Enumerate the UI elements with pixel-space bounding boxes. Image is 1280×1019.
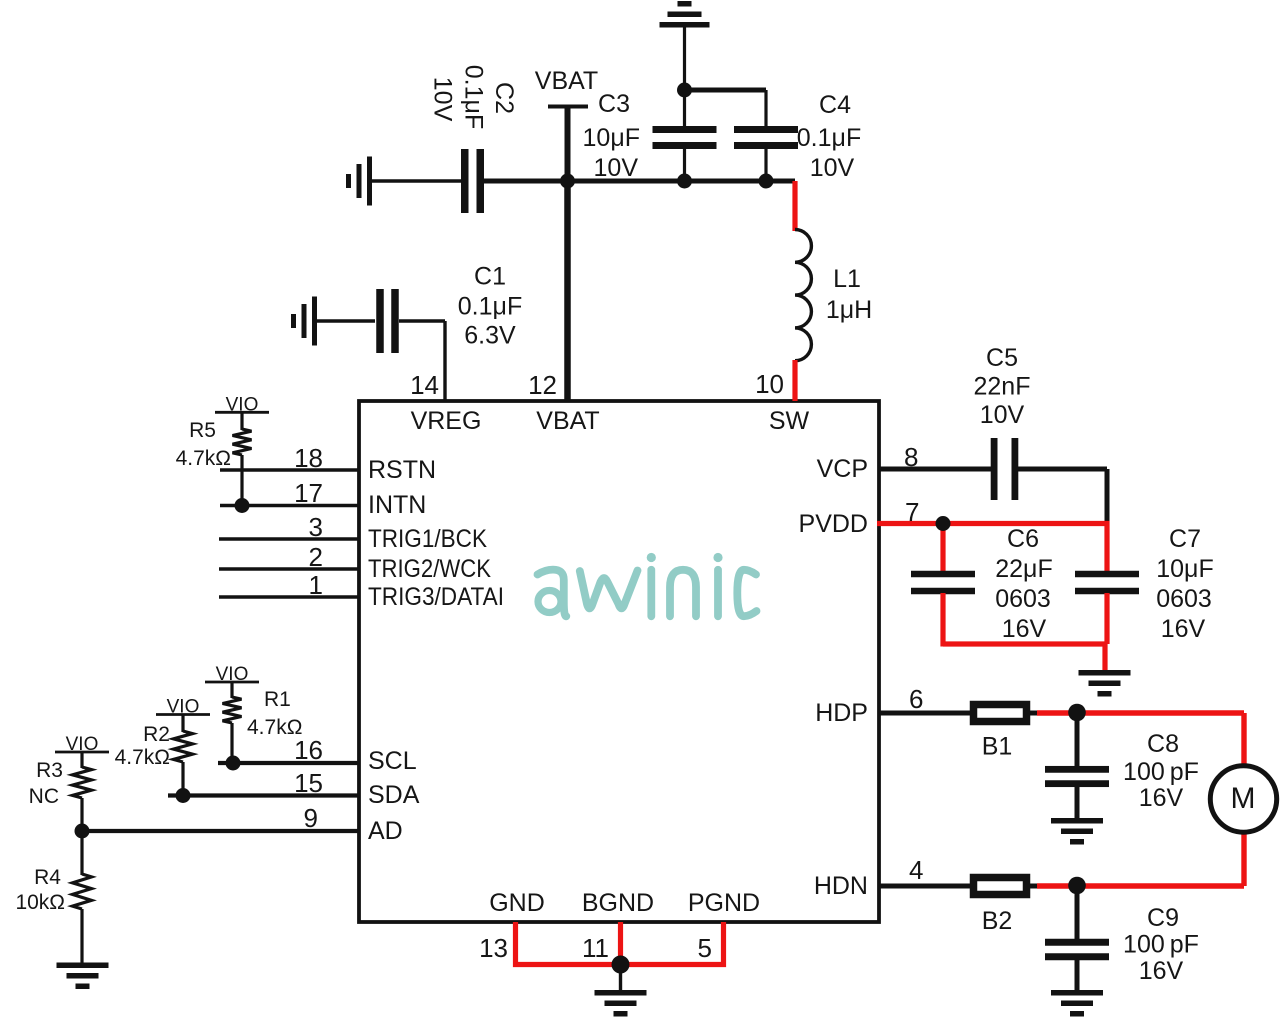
svg-text:0.1μF: 0.1μF [797,124,861,152]
svg-text:TRIG1/BCK: TRIG1/BCK [368,525,487,553]
svg-text:10V: 10V [810,154,855,182]
svg-text:9: 9 [304,803,318,833]
svg-text:VREG: VREG [411,407,482,435]
svg-text:16: 16 [294,735,323,765]
svg-text:VCP: VCP [817,455,868,483]
svg-text:17: 17 [294,478,323,508]
svg-text:10V: 10V [594,154,639,182]
svg-text:5: 5 [698,933,712,963]
svg-text:18: 18 [294,443,323,473]
svg-text:INTN: INTN [368,491,426,519]
svg-text:10: 10 [755,369,784,399]
svg-text:10μF: 10μF [1156,555,1213,583]
svg-text:R1: R1 [264,688,291,711]
svg-text:R2: R2 [143,723,170,746]
svg-text:1: 1 [309,570,323,600]
svg-text:4.7kΩ: 4.7kΩ [115,746,170,769]
svg-text:VBAT: VBAT [536,407,599,435]
svg-text:16V: 16V [1139,784,1184,812]
svg-text:6.3V: 6.3V [464,322,516,350]
svg-text:10V: 10V [980,401,1025,429]
svg-text:11: 11 [582,933,609,963]
svg-text:BGND: BGND [582,889,654,917]
svg-text:SDA: SDA [368,781,420,809]
svg-text:1μH: 1μH [826,296,872,324]
svg-text:C5: C5 [986,344,1018,372]
svg-text:6: 6 [909,684,923,714]
svg-text:PGND: PGND [688,889,760,917]
svg-text:TRIG3/DATAI: TRIG3/DATAI [368,583,504,611]
svg-text:13: 13 [479,933,508,963]
svg-text:R3: R3 [36,759,63,782]
svg-text:2: 2 [309,542,323,572]
svg-text:C6: C6 [1007,525,1039,553]
svg-text:4: 4 [909,855,923,885]
svg-text:C9: C9 [1147,904,1179,932]
svg-text:C4: C4 [819,91,851,119]
svg-text:NC: NC [29,785,59,808]
svg-text:10kΩ: 10kΩ [15,891,65,914]
svg-text:C7: C7 [1169,525,1201,553]
svg-text:7: 7 [905,497,919,527]
svg-text:C2: C2 [490,82,518,114]
svg-text:RSTN: RSTN [368,456,436,484]
svg-text:L1: L1 [833,265,861,293]
svg-text:15: 15 [294,768,323,798]
svg-text:100 pF: 100 pF [1123,758,1199,786]
svg-text:R5: R5 [189,419,216,442]
svg-text:M: M [1231,782,1256,815]
svg-text:22μF: 22μF [995,555,1052,583]
svg-text:AD: AD [368,817,403,845]
svg-text:0.1μF: 0.1μF [460,65,488,129]
svg-text:GND: GND [489,889,545,917]
svg-text:0603: 0603 [995,585,1051,613]
svg-text:16V: 16V [1161,615,1206,643]
svg-text:SW: SW [769,407,810,435]
svg-text:HDP: HDP [815,699,868,727]
svg-text:VBAT: VBAT [535,67,598,95]
svg-text:16V: 16V [1002,615,1047,643]
svg-text:10μF: 10μF [583,124,640,152]
svg-text:4.7kΩ: 4.7kΩ [176,447,231,470]
svg-text:B1: B1 [982,733,1013,761]
svg-text:3: 3 [309,512,323,542]
svg-text:TRIG2/WCK: TRIG2/WCK [368,555,491,583]
svg-text:0603: 0603 [1156,585,1212,613]
svg-text:0.1μF: 0.1μF [458,293,522,321]
svg-text:C8: C8 [1147,730,1179,758]
svg-text:14: 14 [410,370,439,400]
svg-text:HDN: HDN [814,872,868,900]
svg-text:100 pF: 100 pF [1123,931,1199,959]
svg-text:C1: C1 [474,263,506,291]
svg-text:SCL: SCL [368,747,417,775]
svg-text:10V: 10V [429,77,457,122]
svg-text:R4: R4 [34,866,61,889]
svg-text:12: 12 [528,370,557,400]
svg-text:B2: B2 [982,907,1013,935]
svg-text:22nF: 22nF [974,373,1031,401]
svg-text:16V: 16V [1139,957,1184,985]
svg-text:C3: C3 [598,90,630,118]
svg-text:PVDD: PVDD [799,510,868,538]
svg-text:8: 8 [904,442,918,472]
